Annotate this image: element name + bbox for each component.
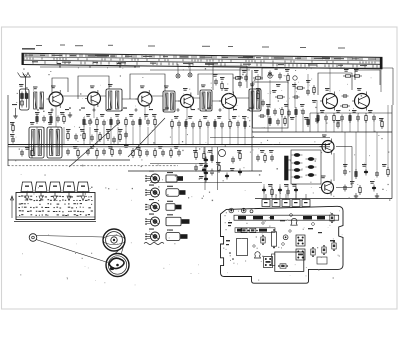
wire top rail 2 bbox=[150, 69, 250, 71]
emitter parts T1 bbox=[68, 107, 72, 117]
wire top right link bbox=[262, 67, 393, 69]
IF transformer S1 bbox=[106, 84, 122, 111]
pushbutton switch unit bbox=[11, 182, 97, 222]
AF bottom drops bbox=[264, 184, 296, 199]
wire mid low bbox=[150, 163, 205, 165]
wire loop right bbox=[240, 68, 262, 80]
detector network 2 bbox=[256, 80, 319, 127]
tuning trimmers right bbox=[106, 129, 129, 148]
wire vert 2175 bbox=[217, 147, 219, 190]
wire vert 393 upper bbox=[392, 68, 394, 105]
wire right bottom bus bbox=[255, 198, 392, 200]
diagonal link wire bbox=[69, 122, 120, 167]
dial scale bbox=[22, 53, 382, 69]
package pictorial 4 bbox=[166, 214, 190, 226]
wire vertical 252 bbox=[251, 70, 253, 171]
wire T4 to S3 bbox=[193, 97, 200, 99]
AGC parts 2 bbox=[154, 146, 181, 158]
wire T5 to S4 bbox=[236, 97, 249, 99]
wire loop over T7 bbox=[355, 70, 380, 85]
pcb tab connector wires bbox=[266, 194, 306, 200]
power filter parts bbox=[343, 164, 389, 198]
trimmer pictorial 3 bbox=[145, 199, 159, 212]
antenna bbox=[18, 73, 31, 96]
wire emitter drop T1 bbox=[55, 106, 57, 127]
wire emitter drop T5 bbox=[228, 109, 230, 121]
wire loop over T6 bbox=[318, 73, 352, 95]
wire vert 381 bbox=[380, 64, 382, 92]
wire T3 to S2 bbox=[152, 95, 163, 97]
trimmer pictorial 4 bbox=[145, 214, 159, 227]
decoder box outline bbox=[253, 82, 289, 128]
wire rail mid2 bbox=[8, 146, 330, 148]
pcb solder tabs bbox=[262, 200, 310, 207]
package pictorial 3 bbox=[166, 201, 182, 211]
wire loop over T1 bbox=[52, 78, 68, 95]
dial lamp 2 bbox=[188, 64, 192, 77]
misc junction row bbox=[37, 108, 253, 113]
AF bottom parts bbox=[262, 184, 298, 197]
transistor T8 bbox=[320, 135, 335, 155]
wire top right parts bbox=[233, 67, 290, 83]
detector small circle bbox=[293, 76, 297, 80]
wire vertical left bbox=[7, 95, 9, 166]
diagonal link wire 2 bbox=[128, 118, 165, 157]
dial cord and pulleys bbox=[29, 229, 129, 277]
transistor T6 bbox=[320, 88, 338, 111]
wire loop over T2 bbox=[78, 76, 109, 99]
trimmer pictorial 1 bbox=[145, 171, 159, 184]
wire vertical right bbox=[391, 105, 393, 199]
wire stub scale 120 bbox=[119, 64, 121, 67]
bias network T6 T7 bbox=[317, 94, 376, 123]
wire emitter drop T3 bbox=[144, 106, 146, 120]
package pictorial 1 bbox=[166, 172, 183, 182]
transistor T4 bbox=[178, 88, 194, 110]
spring symbol bbox=[144, 243, 164, 245]
wire mid low2 bbox=[150, 182, 262, 184]
wire rail low2 bbox=[8, 165, 178, 167]
AGC parts bbox=[132, 147, 149, 158]
wire base T4 bbox=[175, 100, 181, 102]
IF transformer S4 bbox=[249, 84, 261, 112]
transistor T9 bbox=[319, 176, 334, 196]
output wires bbox=[334, 147, 352, 188]
printed circuit board components bbox=[226, 208, 339, 271]
detector small circle 2 bbox=[268, 74, 272, 78]
wire loop over T4 bbox=[198, 74, 233, 95]
oscillator coil pack bbox=[29, 122, 62, 158]
IF transformer S3 bbox=[200, 85, 212, 112]
mixer parts bbox=[213, 74, 242, 91]
wire emitter drop T4 bbox=[186, 108, 188, 121]
right mid parts bbox=[336, 118, 384, 129]
ground left bbox=[12, 104, 18, 118]
bias network T2 T3 bbox=[83, 114, 157, 127]
wire base T3 bbox=[122, 98, 138, 100]
wire loop 213 bbox=[213, 66, 247, 90]
wire bottom bus bbox=[128, 170, 262, 172]
transistor T3 bbox=[136, 86, 153, 109]
IF transformer S2 bbox=[163, 86, 175, 113]
tone stack bbox=[199, 157, 208, 183]
left column parts bbox=[10, 122, 15, 144]
wire top right rail bbox=[262, 67, 345, 69]
wire loop over T3 bbox=[130, 74, 165, 99]
dial lamp 1 bbox=[176, 64, 180, 78]
resistor pair top right bbox=[343, 69, 362, 77]
transistor T7 bbox=[352, 88, 370, 111]
wire top rail bbox=[40, 66, 140, 68]
wire drops to rail bbox=[36, 127, 245, 145]
input coil L2 bbox=[33, 87, 43, 110]
bias network T1 bbox=[35, 112, 65, 124]
trimmer pictorial 5 bbox=[145, 229, 159, 242]
detector network bbox=[266, 90, 305, 117]
wire base T5 bbox=[212, 100, 222, 102]
T6 row drops bbox=[318, 120, 374, 132]
tuning capacitor section bbox=[66, 129, 101, 158]
bias network T4 T5 bbox=[171, 116, 247, 129]
AF driver stage block bbox=[285, 150, 322, 184]
wire emitter drop T2 bbox=[93, 105, 95, 118]
coupling parts bbox=[256, 150, 274, 163]
wire vert 205 bbox=[204, 147, 206, 190]
detector drops bbox=[258, 74, 317, 132]
wire rail mid bbox=[8, 144, 330, 146]
scan noise speckles bbox=[15, 67, 390, 285]
wire collector T1 bbox=[63, 95, 88, 97]
wire stub scale 60 bbox=[59, 64, 61, 67]
pcb outline bbox=[221, 206, 344, 283]
trimmer pictorial 2 bbox=[145, 185, 159, 198]
wire right bus bbox=[252, 131, 392, 133]
wire rail low1 bbox=[8, 159, 130, 161]
junction dots top rail bbox=[57, 63, 136, 68]
transistor T2 bbox=[85, 86, 101, 108]
package pictorial 5 bbox=[166, 230, 188, 241]
AF preamp chain bbox=[193, 147, 242, 180]
wire vertical 310 bbox=[309, 113, 311, 132]
transistor T1 bbox=[47, 86, 64, 109]
marks above scale bbox=[22, 45, 345, 50]
antenna coil L1 bbox=[19, 84, 29, 110]
wire collector T2 bbox=[100, 95, 106, 97]
transistor T5 bbox=[219, 88, 237, 111]
wire drops right bbox=[345, 105, 388, 170]
wave band parts bbox=[20, 146, 122, 158]
package pictorial 2 bbox=[166, 186, 186, 197]
wire rail 137 bbox=[210, 137, 330, 139]
wire drop 330 bbox=[329, 68, 331, 92]
wire rail T6 bbox=[310, 112, 392, 114]
